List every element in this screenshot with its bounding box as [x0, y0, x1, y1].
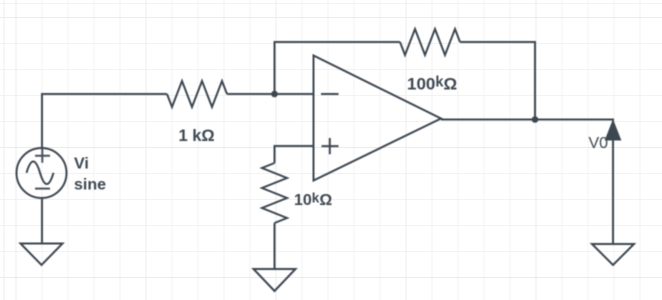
svg-text:V0: V0	[589, 135, 609, 152]
svg-text:Vi: Vi	[74, 156, 89, 173]
svg-text:1 kΩ: 1 kΩ	[179, 127, 215, 145]
svg-text:10kΩ: 10kΩ	[294, 191, 332, 210]
svg-text:sine: sine	[74, 177, 106, 194]
svg-text:100kΩ: 100kΩ	[407, 75, 457, 94]
